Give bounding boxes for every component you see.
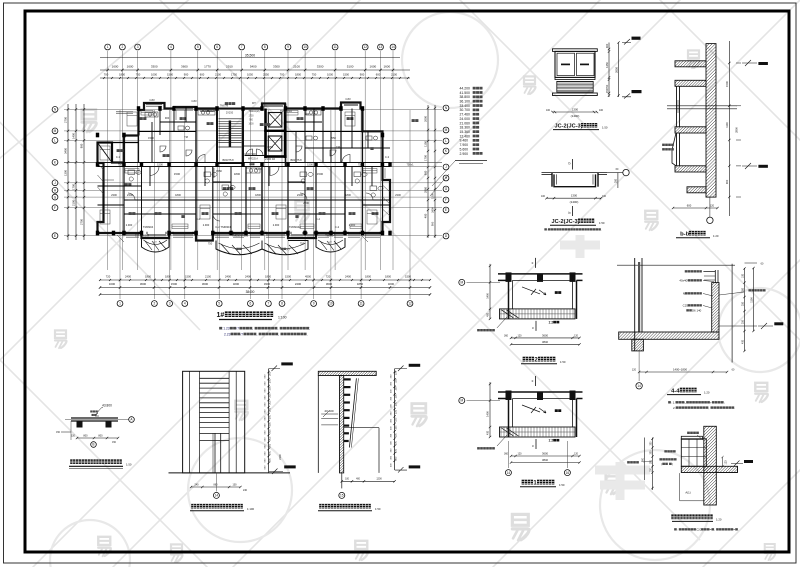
balcony plan 1 top wall <box>498 391 583 393</box>
window level mark top <box>632 37 641 40</box>
svg-text:1800: 1800 <box>165 275 171 279</box>
svg-text:2.23: 2.23 <box>224 332 231 336</box>
svg-text:C-2 TM0904: C-2 TM0904 <box>215 225 231 229</box>
ac-shelf grid structure <box>681 439 706 467</box>
corridor walls <box>98 162 391 164</box>
svg-text:4: 4 <box>170 45 172 49</box>
ac-shelf top cap <box>681 436 702 439</box>
misc fitting lines <box>104 110 385 242</box>
svg-text:1500: 1500 <box>431 193 435 199</box>
svg-text:b-b: b-b <box>680 232 689 238</box>
svg-text:1000: 1000 <box>151 73 157 77</box>
svg-text:3300: 3300 <box>264 282 271 286</box>
svg-text:2910: 2910 <box>226 64 233 68</box>
stair section bottom level 40.000 <box>409 465 421 468</box>
svg-text:2.900: 2.900 <box>273 223 280 227</box>
balcony plan 1 room diagonal <box>522 405 540 413</box>
b-b datum circle <box>707 217 713 223</box>
svg-text:120: 120 <box>632 369 637 372</box>
svg-text:C-2: C-2 <box>335 225 340 229</box>
svg-text:100: 100 <box>233 483 238 486</box>
ac-shelf left label <box>627 461 630 463</box>
parapet dims <box>77 437 118 439</box>
svg-text:38400: 38400 <box>246 290 255 294</box>
b-b level marks <box>758 62 768 65</box>
stair section top level 35.100 <box>409 364 421 367</box>
svg-text:1800: 1800 <box>365 275 371 279</box>
svg-text:750x1: 750x1 <box>406 162 414 166</box>
svg-text:B: B <box>92 443 94 447</box>
b-b slab 1 <box>669 61 717 67</box>
svg-text:2100: 2100 <box>72 200 76 206</box>
svg-text:1500: 1500 <box>307 162 313 166</box>
window elevation frame <box>555 51 595 77</box>
svg-text:700: 700 <box>280 73 285 77</box>
svg-text:1750: 1750 <box>231 73 237 77</box>
svg-text:300: 300 <box>269 458 272 463</box>
svg-text:900: 900 <box>165 116 170 120</box>
svg-text:150: 150 <box>395 370 398 375</box>
svg-text:1:50: 1:50 <box>599 221 605 225</box>
svg-text:C-2 TM0904: C-2 TM0904 <box>135 234 150 238</box>
stair section landing line <box>344 427 379 429</box>
parapet bottom axis bubble <box>91 442 97 448</box>
door arcs <box>128 155 373 222</box>
balcony plan 2 left axis bubble <box>459 279 465 285</box>
svg-text:1500: 1500 <box>285 275 291 279</box>
svg-text:100: 100 <box>602 195 607 198</box>
svg-text:36.100: 36.100 <box>460 100 470 104</box>
svg-text:L: L <box>54 139 56 143</box>
svg-text:3840: 3840 <box>542 458 548 462</box>
svg-text:2.900: 2.900 <box>203 223 210 227</box>
stair elevation top level 35.100 <box>281 362 293 365</box>
svg-text:1500: 1500 <box>157 162 163 166</box>
svg-text:300: 300 <box>269 429 272 434</box>
4-4 floor slab hatched <box>611 332 732 339</box>
svg-text:3: 3 <box>169 302 171 306</box>
svg-text:3,100 900: 3,100 900 <box>244 152 256 156</box>
svg-text:2000: 2000 <box>424 116 428 122</box>
JC-2 plan dims <box>547 197 602 199</box>
4-4 bottom dim <box>639 371 727 373</box>
svg-text:C#3: C#3 <box>149 98 155 102</box>
4-4 axis bubble <box>636 383 642 389</box>
svg-text:900: 900 <box>424 170 428 175</box>
b-b slab 2 <box>669 80 717 86</box>
svg-text:1200: 1200 <box>376 478 382 481</box>
svg-text:240: 240 <box>195 483 200 486</box>
balcony plan 1 title <box>522 480 527 485</box>
b-b window frame lower <box>676 133 678 166</box>
svg-text:2100: 2100 <box>279 454 282 460</box>
svg-text:300: 300 <box>269 414 272 419</box>
svg-text:1770: 1770 <box>204 64 211 68</box>
window louver panel <box>557 82 593 92</box>
parapet small text <box>90 410 92 412</box>
svg-text:3200: 3200 <box>233 282 240 286</box>
balcony plan 2 section marker c bottom <box>535 321 537 331</box>
svg-text:(: ( <box>661 462 662 466</box>
svg-text:300: 300 <box>269 378 272 383</box>
4-4 railing lines <box>714 270 716 283</box>
stair landing lines <box>219 146 242 148</box>
svg-text:1:100: 1:100 <box>278 316 287 320</box>
svg-text:900: 900 <box>305 112 310 116</box>
interior walls horizontal <box>98 122 391 214</box>
svg-text:TM: TM <box>184 135 188 139</box>
plan interior window ticks <box>126 232 380 234</box>
svg-text:360: 360 <box>504 453 509 456</box>
b-b slab 5 <box>681 187 718 193</box>
svg-text:TM0904A: TM0904A <box>289 225 301 229</box>
svg-text:2X250: 2X250 <box>226 112 234 115</box>
svg-text:1800: 1800 <box>145 275 151 279</box>
svg-text:C#3: C#3 <box>191 99 197 103</box>
svg-text:2300: 2300 <box>303 201 309 205</box>
left wing window bay diagonals <box>98 163 104 194</box>
stair section wall <box>242 376 537 473</box>
svg-text:(1400): (1400) <box>570 200 579 204</box>
b-b bottom dims <box>673 207 718 209</box>
svg-text:1700: 1700 <box>72 184 76 190</box>
balcony right wing <box>316 238 345 252</box>
svg-text:750: 750 <box>300 242 305 246</box>
svg-text:3300: 3300 <box>317 64 324 68</box>
stair elevation title <box>191 504 196 509</box>
svg-text:): ) <box>672 462 673 466</box>
svg-text:300: 300 <box>269 371 272 376</box>
svg-text:10: 10 <box>329 302 333 306</box>
balcony plan 1 finish label <box>477 447 480 449</box>
windows top wall <box>116 104 358 113</box>
svg-text:1500: 1500 <box>167 73 173 77</box>
svg-text:1400~1800: 1400~1800 <box>673 368 688 372</box>
svg-text:3300: 3300 <box>273 64 280 68</box>
stair elevation inner verticals <box>189 371 191 473</box>
balcony left wing <box>142 238 170 252</box>
svg-text:=: = <box>733 528 735 532</box>
svg-text:1500: 1500 <box>725 81 729 87</box>
center bottom wall <box>196 233 262 241</box>
top overall dimension 35500 <box>100 57 400 59</box>
svg-text:C-3: C-3 <box>385 155 390 159</box>
svg-text:1500: 1500 <box>185 275 191 279</box>
center tower top walls <box>196 104 286 109</box>
right wing extra partitions <box>152 109 368 163</box>
svg-text:F: F <box>54 206 56 210</box>
svg-text:35,500: 35,500 <box>245 54 255 58</box>
svg-text:C-2: C-2 <box>316 217 321 221</box>
svg-text:1300: 1300 <box>572 108 579 112</box>
svg-text:750: 750 <box>605 84 609 89</box>
kitchen counters <box>145 110 321 173</box>
stair section left ledge <box>317 376 319 473</box>
ac-shelf left dim <box>652 438 654 491</box>
b-b section main wall <box>553 44 800 198</box>
balcony center-left <box>216 241 262 255</box>
stair elevation louver panel <box>200 378 230 422</box>
interior walls vertical <box>138 110 140 163</box>
b-b slab 4 <box>669 166 717 172</box>
svg-text:600: 600 <box>687 203 692 207</box>
4-4 right label <box>748 289 751 291</box>
svg-text:6: 6 <box>216 45 218 49</box>
svg-text:860: 860 <box>214 483 219 486</box>
svg-text:E: E <box>445 208 447 212</box>
svg-text:C#3: C#3 <box>345 97 351 101</box>
parapet plan blocks <box>77 421 83 428</box>
parapet title 屋面栏杆构件平面图 <box>70 459 75 464</box>
window bottom bar <box>553 93 598 96</box>
svg-text:12: 12 <box>363 45 367 49</box>
window elevation JC-2 top bar <box>553 49 598 52</box>
svg-text:TM002(M): TM002(M) <box>248 110 259 113</box>
watermark block glyph shapes <box>560 235 650 500</box>
svg-text:100: 100 <box>599 109 604 112</box>
stair section bottom stem <box>341 473 343 489</box>
svg-text:1: 1 <box>107 45 109 49</box>
svg-text:E: E <box>54 234 56 238</box>
svg-text:1600: 1600 <box>127 64 134 68</box>
4-4 right boundary line <box>731 264 733 363</box>
svg-text:1:100: 1:100 <box>247 507 254 511</box>
svg-text:c: c <box>532 444 534 448</box>
elevator lobby door arcs <box>246 149 253 156</box>
svg-text:.: . <box>307 332 308 336</box>
svg-text:1#: 1# <box>217 312 225 319</box>
svg-text:3600: 3600 <box>542 452 548 456</box>
svg-text:9: 9 <box>287 45 289 49</box>
parapet plan band <box>71 417 118 419</box>
svg-text:1500: 1500 <box>405 275 411 279</box>
svg-text:2.: 2. <box>673 406 676 410</box>
interior tiny dimension marks <box>111 112 401 246</box>
perimeter wall left wing <box>139 103 197 136</box>
svg-text:3300: 3300 <box>151 64 158 68</box>
balcony plan 2 finish label <box>477 329 480 331</box>
svg-text:/7: /7 <box>236 327 239 331</box>
svg-text:900: 900 <box>725 179 729 184</box>
svg-text:5: 5 <box>218 302 220 306</box>
stair elevation mid rails <box>200 427 230 429</box>
bathroom fixtures <box>128 170 383 197</box>
svg-text:120: 120 <box>574 334 579 337</box>
svg-text:5: 5 <box>197 45 199 49</box>
svg-text:900: 900 <box>80 143 84 148</box>
JC-2 section marker b bottom <box>572 206 574 216</box>
svg-text:;: ; <box>724 401 725 405</box>
balcony plan 1 axis bubbles bottom <box>505 470 511 476</box>
svg-text:1600: 1600 <box>383 64 390 68</box>
svg-text:360: 360 <box>504 334 509 337</box>
balcony plan 2 columns <box>506 272 512 282</box>
top dimension line 1 <box>100 69 410 71</box>
svg-text:YT: YT <box>153 241 157 245</box>
svg-text:150: 150 <box>395 409 398 414</box>
svg-text:(2): (2) <box>286 247 289 251</box>
left bay window <box>98 143 113 163</box>
svg-text:300: 300 <box>269 436 272 441</box>
svg-text:100: 100 <box>742 273 745 278</box>
window third lines <box>126 236 380 238</box>
svg-text:3600: 3600 <box>326 282 333 286</box>
svg-text:2: 2 <box>122 45 124 49</box>
right axis bubbles <box>443 105 449 111</box>
svg-text:1000: 1000 <box>248 124 254 126</box>
svg-text:300: 300 <box>269 386 272 391</box>
svg-text:2400: 2400 <box>245 275 251 279</box>
parapet right axis bubble <box>129 417 135 423</box>
svg-text:9.460: 9.460 <box>460 139 469 143</box>
svg-text:120: 120 <box>710 204 715 207</box>
svg-text:10: 10 <box>303 45 307 49</box>
svg-text:c: c <box>532 326 534 330</box>
svg-text:B#2375.8: B#2375.8 <box>290 158 302 162</box>
b-b balcony panel <box>672 133 676 166</box>
svg-text:1500: 1500 <box>317 172 324 176</box>
svg-text:13: 13 <box>379 45 383 49</box>
svg-text:150: 150 <box>395 417 398 422</box>
svg-text:c: c <box>532 261 534 265</box>
svg-text:1700: 1700 <box>424 155 428 161</box>
svg-text:M: M <box>445 128 448 132</box>
svg-text:TM: TM <box>336 145 340 149</box>
svg-text:150: 150 <box>395 448 398 453</box>
svg-text:1:50: 1:50 <box>560 360 566 364</box>
level table leader diagonals <box>430 161 455 196</box>
ac-shelf right level mark <box>744 460 753 463</box>
JC-2 section marker b top <box>572 159 574 170</box>
balcony plan 2 hatched slab <box>500 309 576 319</box>
svg-text:300: 300 <box>269 407 272 412</box>
svg-text:720: 720 <box>106 275 111 279</box>
svg-text:150: 150 <box>395 440 398 445</box>
svg-text:40x40: 40x40 <box>679 279 687 283</box>
window panes <box>557 53 575 75</box>
svg-text:1:50: 1:50 <box>602 126 608 130</box>
svg-text:14: 14 <box>215 494 219 498</box>
window horizontal dim <box>553 111 598 113</box>
b-b right dim ticks <box>728 62 730 64</box>
right wing bottom wall <box>262 233 345 238</box>
room labels <box>117 149 120 152</box>
balcony plan 1 section marker c bottom <box>535 439 537 449</box>
svg-text:1550: 1550 <box>216 169 222 173</box>
svg-text:5100: 5100 <box>347 64 354 68</box>
svg-text:750: 750 <box>358 162 363 166</box>
svg-text:150: 150 <box>395 433 398 438</box>
svg-text:150: 150 <box>395 378 398 383</box>
svg-text:1:50: 1:50 <box>126 462 132 466</box>
plan notes <box>219 327 222 330</box>
stair elevation door <box>214 433 216 473</box>
svg-text:1450: 1450 <box>605 62 609 68</box>
svg-text:8: 8 <box>264 45 266 49</box>
svg-text:3200: 3200 <box>388 282 395 286</box>
svg-text:1400: 1400 <box>486 411 490 417</box>
ac-shelf slab <box>675 466 748 472</box>
svg-text:4500: 4500 <box>305 275 311 279</box>
window sill band <box>555 77 595 79</box>
stair section top slab <box>314 371 383 375</box>
svg-text:40.600: 40.600 <box>324 409 334 413</box>
stair core <box>217 109 243 164</box>
svg-text:c: c <box>532 379 534 383</box>
balcony plan 2 room diagonal <box>522 287 540 295</box>
bottom overall dimension 38400 <box>100 294 430 296</box>
svg-text:5400: 5400 <box>250 64 257 68</box>
svg-text:750: 750 <box>312 73 317 77</box>
stair section bottom dims <box>342 480 395 482</box>
svg-text:11: 11 <box>333 45 337 49</box>
svg-text:2400: 2400 <box>225 275 231 279</box>
perimeter wall right wing <box>286 103 390 234</box>
4-4 lower-left block <box>620 339 665 351</box>
4-4 railing labels <box>685 270 688 272</box>
svg-text:L: L <box>445 139 447 143</box>
svg-text:11: 11 <box>359 302 363 306</box>
svg-text:2100 40: 2100 40 <box>265 157 276 161</box>
svg-text:2100: 2100 <box>391 73 397 77</box>
stair central stringer <box>229 121 231 148</box>
elevator cab 2 <box>268 136 282 151</box>
b-b right reference line <box>728 41 730 216</box>
svg-text:2700: 2700 <box>64 117 68 123</box>
balcony plan 2 title <box>523 357 528 362</box>
svg-text:300: 300 <box>605 43 609 48</box>
4-4 top boundary line <box>617 264 735 266</box>
svg-text:1500: 1500 <box>171 282 178 286</box>
stair elevation level dim column <box>268 369 270 473</box>
stair section steps <box>344 378 351 442</box>
svg-text:16: 16 <box>566 471 570 475</box>
balcony plan 2 bottom dims <box>511 337 580 339</box>
svg-text:300: 300 <box>269 422 272 427</box>
svg-text:14: 14 <box>507 471 511 475</box>
svg-text:300: 300 <box>269 400 272 405</box>
balcony plan 2 left dim <box>489 264 491 319</box>
svg-text:3600: 3600 <box>542 333 548 337</box>
right dimension lines <box>427 105 429 238</box>
svg-text:150: 150 <box>395 425 398 430</box>
ac-shelf middle labels <box>664 450 667 452</box>
svg-text:800: 800 <box>83 434 88 437</box>
svg-text:400: 400 <box>487 430 490 435</box>
svg-text:2: 2 <box>154 302 156 306</box>
4-4 top tick <box>745 262 758 264</box>
svg-text:1000: 1000 <box>327 73 333 77</box>
window vertical dim right <box>608 43 610 98</box>
left axis bubbles <box>52 107 58 113</box>
b-b slab 3 <box>669 127 717 133</box>
svg-text:1800: 1800 <box>234 172 241 176</box>
svg-text:3600: 3600 <box>181 64 188 68</box>
svg-text:250: 250 <box>742 301 745 306</box>
ac-shelf top label <box>687 432 690 434</box>
svg-text:1600: 1600 <box>112 64 119 68</box>
svg-text:JC-2(JC-3): JC-2(JC-3) <box>555 124 583 130</box>
svg-text::1.23: :1.23 <box>222 327 229 331</box>
svg-text:2.900: 2.900 <box>460 152 469 156</box>
svg-text:1750: 1750 <box>248 116 254 118</box>
svg-text:3840: 3840 <box>542 340 548 344</box>
svg-text:TM0904: TM0904 <box>143 225 154 229</box>
svg-text:+: + <box>710 401 712 405</box>
svg-text:2650: 2650 <box>615 67 619 73</box>
svg-text:14: 14 <box>637 384 641 388</box>
balcony plan 1 section marker c top <box>535 376 537 386</box>
